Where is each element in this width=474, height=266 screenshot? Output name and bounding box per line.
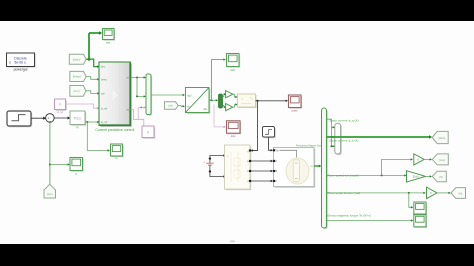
- scope iq_ref: [111, 144, 124, 160]
- wire tag wm to port 3: [86, 91, 100, 95]
- From tag [wm] left: [70, 86, 86, 97]
- svg-text:[wm]: [wm]: [47, 192, 53, 196]
- svg-text:pulse: pulse: [292, 108, 299, 112]
- branch down to scope theta: [409, 193, 414, 209]
- wire step to sum: [31, 117, 46, 120]
- svg-text:[th]: [th]: [459, 191, 463, 195]
- svg-text:0: 0: [147, 130, 149, 134]
- svg-text:30/pi: 30/pi: [413, 175, 419, 179]
- svg-text:id_ref: id_ref: [101, 107, 108, 110]
- svg-text:Current predictive control: Current predictive control: [95, 128, 134, 132]
- svg-text:[iabc]: [iabc]: [73, 57, 80, 61]
- gain K (theta): [427, 187, 451, 198]
- demux out2 to gain triangle 2: [223, 105, 227, 108]
- svg-text:PI: PI: [76, 125, 79, 129]
- wire subsystem out1 to mux input1: [131, 76, 146, 78]
- scope theta small: [414, 202, 427, 215]
- wire branch down to mux input2: [136, 78, 146, 98]
- gain triangle 2: [226, 104, 233, 111]
- dq0 to abc transform block: [186, 88, 211, 114]
- svg-text:Rotor angle thetam (rad): Rotor angle thetam (rad): [328, 191, 361, 195]
- wire junction to scope w: [50, 163, 70, 165]
- svg-text:K: K: [430, 191, 432, 195]
- mux stator currents (bar2): [335, 123, 342, 155]
- wire mux to dq0-abc block: [151, 94, 185, 96]
- branch up to gain K: [382, 158, 413, 175]
- powergui block: [7, 53, 36, 72]
- rotor speed wire row: [327, 174, 405, 176]
- svg-text:iabc: iabc: [106, 40, 111, 44]
- wire DC- to inverter: [210, 172, 226, 178]
- bold iabc wire to goto tag: [327, 135, 433, 139]
- mux (vd vq 0): [146, 74, 152, 116]
- svg-text:[wm]: [wm]: [73, 89, 79, 93]
- svg-text:+: +: [203, 160, 205, 164]
- wire sum to PI: [54, 117, 70, 120]
- PWM generator block (beige): [238, 94, 257, 108]
- bold iabc wire: vertical + to scope: [88, 31, 103, 61]
- svg-text:m: m: [310, 165, 312, 168]
- svg-text:[N]: [N]: [439, 175, 443, 179]
- wire inverter C to motor C: [249, 180, 273, 182]
- wire (pink) to duty scope: [214, 105, 226, 129]
- svg-text:wm: wm: [101, 93, 105, 96]
- wire triangle1 to PWM block: [233, 94, 238, 98]
- top letterbox bar: [0, 0, 474, 21]
- constant id_ref = 0 (pink): [55, 99, 67, 114]
- wire torque step to motor Tm: [269, 137, 274, 152]
- demux out1 to gain triangle 1: [223, 93, 227, 97]
- rotor angle wire row: [327, 192, 426, 194]
- wire gain to goto [wm]: [424, 158, 432, 160]
- constant 0 (pink) under mux: [142, 126, 155, 139]
- svg-text:K: K: [417, 158, 419, 162]
- DC voltage source: [203, 157, 213, 172]
- step block (load torque): [263, 127, 276, 139]
- goto tag [theta] right: [451, 188, 466, 199]
- demux: [219, 94, 223, 108]
- sum block (speed error): [46, 114, 55, 124]
- svg-text:5e-06 s.: 5e-06 s.: [14, 60, 26, 64]
- From tag [theta]: [70, 71, 86, 81]
- svg-text:powergui: powergui: [14, 68, 28, 72]
- svg-text:iq_ref: iq_ref: [101, 121, 108, 124]
- svg-text:[wt]: [wt]: [169, 104, 173, 108]
- svg-text:w: w: [75, 173, 77, 176]
- svg-text:Stator current is_a (A): Stator current is_a (A): [329, 119, 358, 123]
- torque wire row: [327, 219, 414, 221]
- scope torque small: [414, 215, 427, 228]
- scope w: [70, 158, 84, 176]
- wire tag iabc to subsystem port 1: [86, 59, 100, 68]
- green feedback wire from tag up to sum: [49, 122, 51, 184]
- scope iabc (top): [103, 29, 116, 45]
- arrows into bar2: [330, 126, 335, 147]
- PI controller block: [70, 111, 86, 129]
- svg-text:id_ref: id_ref: [57, 110, 64, 114]
- goto tag [N] right: [432, 171, 446, 182]
- svg-text:wt: wt: [187, 105, 190, 108]
- wire dq block out to demux: [209, 99, 218, 101]
- wire PWM to pulses scope (black): [256, 100, 289, 102]
- svg-text:[wm]: [wm]: [439, 158, 445, 162]
- step block Step (speed reference): [7, 111, 32, 127]
- svg-text:Tm: Tm: [275, 149, 279, 152]
- wire DC+ to inverter: [210, 154, 226, 158]
- wire bus out1 elbow down: [327, 119, 332, 146]
- svg-text:Permanent Magnet Syn: Permanent Magnet Syn: [296, 145, 322, 148]
- wire PI output to subsystem port 5: [85, 121, 100, 123]
- goto tag [wm] right: [432, 154, 448, 165]
- wire PWM branch down to inverter g port: [250, 101, 257, 152]
- bottom letterbox bar: [0, 244, 474, 266]
- wire id_ref to subsystem port 4 (pink): [66, 104, 100, 109]
- wire inverter B to motor B: [249, 170, 273, 172]
- pulses scope (maroon): [289, 95, 303, 112]
- svg-text:C: C: [275, 180, 277, 183]
- goto tag [iabc] right: [432, 131, 448, 143]
- svg-text:[iabc]: [iabc]: [438, 136, 445, 140]
- wire branch up to scope vabc: [211, 58, 225, 100]
- wire subsystem out2 elbow to constant below: [131, 110, 144, 126]
- svg-text:Electromagnetic torque Te (N*m: Electromagnetic torque Te (N*m): [328, 213, 371, 217]
- wire pink to mux input3: [138, 106, 146, 119]
- gain 30/pi to goto N: [404, 171, 432, 182]
- svg-text:dq0: dq0: [187, 94, 192, 97]
- svg-text:Stator current is_b (A): Stator current is_b (A): [329, 139, 358, 143]
- wire tag theta to port 2: [86, 77, 99, 81]
- svg-text:0: 0: [59, 103, 61, 107]
- wire motor m to bus selector: [314, 165, 322, 168]
- From tag [wm] feeding sum (points up): [44, 184, 56, 198]
- inverter universal bridge: [225, 145, 252, 190]
- svg-text:Rotor speed wm (rad/s): Rotor speed wm (rad/s): [328, 174, 359, 178]
- gain K (wm): [414, 154, 424, 165]
- svg-text:theta: theta: [101, 78, 107, 81]
- From tag [wt]: [165, 102, 179, 110]
- wire inverter A to motor A: [249, 160, 273, 162]
- svg-text:duty: duty: [231, 135, 236, 138]
- scope vabc: [227, 54, 241, 72]
- wire PI branch down to iq_ref scope: [87, 122, 110, 152]
- svg-text:PI(z): PI(z): [74, 117, 82, 121]
- From tag [iabc]: [69, 54, 86, 64]
- small gray artifact: [230, 240, 236, 242]
- svg-text:vabc: vabc: [230, 68, 236, 72]
- wire tag wt to dq0-abc block: [178, 105, 185, 107]
- svg-text:[theta]: [theta]: [73, 75, 81, 79]
- duty scope (maroon): [227, 121, 242, 138]
- gain triangle 1: [226, 91, 233, 98]
- bus selector (tall bar): [322, 108, 328, 229]
- wire triangle2 to PWM block: [233, 103, 238, 107]
- PMSM motor block: [273, 145, 322, 188]
- subsystem Current predictive control: [95, 62, 134, 132]
